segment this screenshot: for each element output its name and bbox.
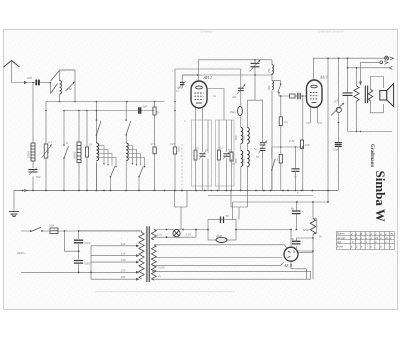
arrowhead on antenna lead [24,81,28,84]
capacitor 5u col x=295.5 [292,169,300,172]
svg-text:250: 250 [66,87,72,91]
svg-text:125: 125 [121,252,126,256]
primary winding (zigzag) [354,86,359,101]
svg-text:15000: 15000 [27,150,31,158]
antenna [4,61,20,68]
wire y=67.8 with hook [348,67,390,69]
line filter capacitor 1 [74,240,83,243]
wire rail y=74 [182,74,272,76]
svg-text:6,3V: 6,3V [157,234,162,237]
faint bleed line bottom [95,291,235,293]
line filter capacitor 2 [74,261,83,264]
svg-text:+: + [302,209,304,213]
svg-text:AZ 11: AZ 11 [283,264,293,268]
svg-text:220V~: 220V~ [16,251,26,255]
tone capacitor 5000 (series in x=347.5) [343,93,353,96]
op tube AH1 envelope [191,81,207,108]
svg-text:180: 180 [305,143,310,147]
svg-text:Ik mA: Ik mA [337,246,343,249]
svg-text:Schaltbild: Schaltbild [200,30,213,34]
node x=78.6 vertical [78,231,80,272]
svg-text:650: 650 [242,158,246,163]
svg-text:8µ: 8µ [291,237,295,241]
svg-text:2x50: 2x50 [288,140,295,143]
svg-text:460: 460 [232,96,237,99]
svg-text:650: 650 [242,135,246,140]
hanging loop left (to dial lamp) [175,191,187,230]
wire switch top to column [74,70,76,102]
osc section feed (goalpost) [247,75,262,191]
resistor 0,15 [173,147,176,154]
svg-text:0,8A: 0,8A [49,224,55,228]
assorted value labels [49,95,323,279]
trimmer cap in can1 [200,154,206,156]
wire top rail y=58.2 (output) [313,57,384,59]
bus inline arrow [24,189,28,191]
svg-text:°: ° [121,238,122,241]
IF coil pair A [241,128,243,167]
svg-text:Großmann Simba W: Großmann Simba W [318,30,344,34]
wire col x=175 [174,69,176,191]
switch col x=64 [64,146,69,158]
svg-text:250: 250 [267,68,271,74]
AL1 pins down [306,108,322,124]
rail y=195 [208,195,313,197]
wire col x=46 [45,102,47,191]
heater lines [152,263,284,266]
wire bus left drop [13,191,15,212]
terminal circle-x on y=58 [385,56,389,60]
primary winding [139,232,144,278]
svg-text:500: 500 [36,175,41,179]
switch S2 [97,121,102,135]
svg-text:2x: 2x [374,236,378,240]
svg-text:0,3: 0,3 [46,149,50,153]
svg-text:PaG: PaG [230,110,236,114]
antenna coil L1 [60,81,62,95]
tube AZ11 (envelope top view) [284,247,298,261]
wire mains bottom y=272.3 [21,271,91,273]
trimmer capacitor (osc) [254,60,256,75]
right side wire from tube to bleeder [298,252,313,254]
svg-text:4000: 4000 [216,234,222,238]
anode wire [207,89,224,121]
capacitor C-ant 100pF [36,80,39,86]
wire y=62.3 with terminal [361,61,381,63]
tuning capacitor (gang) at osc column [238,88,244,90]
secondary 2 (HT) [151,245,156,271]
rail y=202 [233,202,329,220]
svg-text:2x300: 2x300 [157,267,165,270]
svg-text:1M: 1M [89,144,92,147]
AH1 cathode pins down [196,108,203,120]
svg-text:Ug1: Ug1 [337,242,342,244]
trimmer cap in can2 [224,154,230,156]
dropper coil 500 [272,81,274,90]
resistor in can1 [194,150,197,160]
svg-text:M: M [66,142,68,145]
wire rail y=69 [175,68,241,70]
capacitor 5000 col x=33 [29,170,38,173]
IF coil pair B [247,128,249,167]
coil 30000 col x=79 [77,142,81,163]
grid resistor AL1 [290,94,296,98]
resistor 0,5 col x=280.8 [279,155,282,164]
svg-text:8µ: 8µ [291,207,295,211]
svg-text:110: 110 [121,242,126,246]
trimmer arrow on L1 [66,83,75,92]
svg-text:240: 240 [120,275,126,279]
wire top rail y=59.8 (osc) [198,59,272,61]
wire x=338 tone branch [338,58,340,105]
AL1 internals [310,85,318,102]
wire mains top y=231 [21,230,142,232]
switch S3 [126,121,131,135]
secondary winding [368,90,373,101]
svg-text:500: 500 [267,85,271,90]
svg-text:6000: 6000 [303,228,309,232]
wire antenna to C1 [12,82,36,84]
tube AL1 envelope [307,80,323,108]
svg-text:5µF: 5µF [143,105,148,109]
wire x=360 down with arrow [360,62,362,83]
band switch S1a [51,70,76,94]
switch at AL1 grid feed [272,81,290,96]
wire filter to rectifier [236,230,291,248]
speaker [380,84,394,107]
svg-text:4,5: 4,5 [151,143,155,146]
svg-text:Ua Ug2: Ua Ug2 [337,238,346,240]
resistor inline col x=154.5 [153,107,156,115]
svg-text:150: 150 [121,258,126,262]
transformer core [365,86,367,104]
svg-text:650: 650 [234,135,238,140]
trimmer caps mid-right (2x) [260,143,266,145]
svg-text:0,3A: 0,3A [186,234,191,237]
svg-text:AL 1: AL 1 [319,74,328,79]
taps of L3 [128,146,144,167]
svg-text:30000: 30000 [73,151,77,159]
wire x=328 (B+ feed) [327,58,329,202]
grid capacitor AL1 [298,93,300,99]
svg-text:4V: 4V [158,276,161,279]
resistor 0,3 M [279,117,282,126]
wire col x=33 [32,101,34,191]
wire verticals top [197,60,199,75]
tap arrowheads [136,244,140,280]
hanging loop right (to filter) [231,191,248,220]
resistor 0,3 col x=46 [44,144,48,158]
transformer core [147,226,149,282]
AH1 internals [195,86,204,103]
detector rail y=147 [272,146,303,148]
switch mid-right [272,159,275,170]
long wire y=110.5 with series cap [64,110,155,112]
svg-text:4000: 4000 [178,146,181,152]
tap switch blade (L3) [139,167,143,177]
svg-text:100: 100 [27,76,32,80]
HT feeds [154,245,287,249]
coil L3 [126,143,128,161]
speaker wiring loop [371,77,384,113]
taps of coil x=96 [99,146,116,167]
wire col x=154.5 [154,102,156,191]
wire col x=79 [78,111,80,191]
resistor right of can2 [230,152,233,161]
node [50,83,52,94]
wire col x=182 (faint) [181,144,183,191]
filter capacitor [221,217,224,224]
grid top wire [198,75,200,81]
resistor 4,5 col x=154.5 [153,147,156,154]
coil col x=96 (tapped antenna coil) [97,143,99,161]
ground bus wire [14,190,338,192]
svg-text:5000: 5000 [85,262,91,266]
svg-text:0,3: 0,3 [284,120,288,124]
svg-text:xx: xx [384,237,388,240]
svg-text:220: 220 [120,268,126,272]
wire x=347 [347,58,349,131]
electrolytic 8uF (1) [292,211,301,214]
electrolytic 8uF (2) [292,241,301,244]
resistor col x=87 [85,147,88,157]
wire col x=87 [86,111,88,191]
dropper coil 250 [271,60,273,65]
svg-text:5V: 5V [319,236,322,239]
wire col x=64 [63,111,65,191]
fuse [50,228,58,234]
tap switch blade (coil x=96) [111,167,115,177]
ground (chassis) symbol [9,212,19,217]
svg-text:10µF: 10µF [333,148,339,152]
mains switch [31,227,41,231]
tap labels [120,242,126,279]
svg-text:Simba W: Simba W [373,171,388,222]
svg-text:+: + [302,239,304,243]
long wire y=101.5 [46,101,165,103]
svg-text:0,15: 0,15 [170,143,175,146]
choke (electrolytic can) [216,237,227,242]
node x=64.5 [65,231,79,251]
electrolytic 10uF [335,143,342,147]
grid capacitor at AH1 [180,83,184,85]
svg-text:50: 50 [226,214,230,218]
coil 15000 col x=33 [31,143,35,161]
svg-text:AH 1: AH 1 [203,75,213,80]
secondary 1 (rectifier heater) [151,230,156,240]
svg-text:Graßmann: Graßmann [369,144,374,167]
secondary 3 (heaters) [151,270,156,280]
resistor in can2 [218,150,221,160]
bus junction dots [22,190,329,192]
dial lamp [173,230,180,237]
svg-text:Röhren: Röhren [337,233,345,236]
tone pot with arrow [336,107,341,112]
padder PaG [238,106,243,115]
bleeder / field resistor [310,219,315,235]
svg-text:5000: 5000 [85,241,91,245]
wire col x=96 [96,102,98,191]
cathode resistor col x=302 [302,96,304,191]
series capacitor 0,1 in line y=110.5 [139,107,141,113]
svg-text:0,5: 0,5 [275,159,279,162]
